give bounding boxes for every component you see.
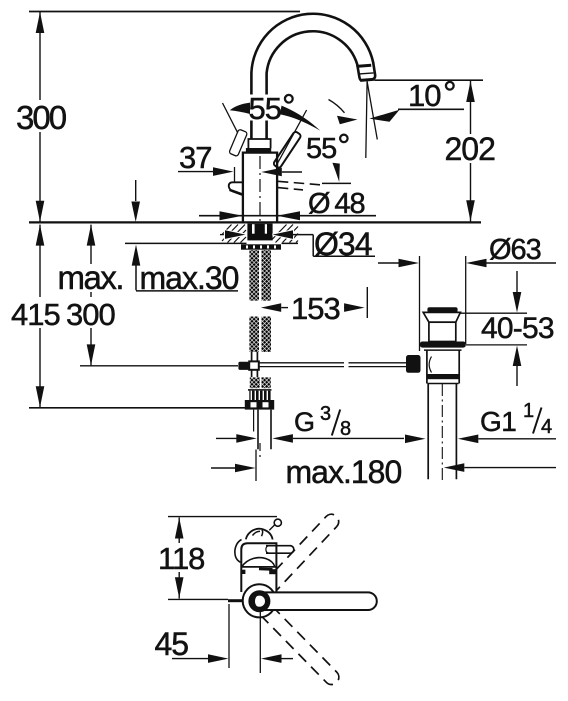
svg-text:max.: max. xyxy=(58,259,124,296)
label 300 top xyxy=(13,100,68,132)
handle lever alternate position (thin outline) xyxy=(229,129,248,157)
pop-up rod right segment xyxy=(349,363,407,367)
pop-up drain bottom rim xyxy=(427,374,458,379)
hose connection nut xyxy=(245,400,274,410)
plan: handle boss dark ring xyxy=(251,593,268,610)
svg-text:G: G xyxy=(294,407,314,437)
dimension 40-53 bottom extension line xyxy=(466,344,527,346)
plan: tiny circle pin xyxy=(274,519,281,526)
hose tee body xyxy=(249,361,259,369)
pop-up drain upper cylinder xyxy=(429,322,456,341)
aerator cut line xyxy=(356,65,371,66)
svg-text:118: 118 xyxy=(158,541,204,576)
threaded shank through counter xyxy=(247,224,272,241)
svg-text:max.180: max.180 xyxy=(286,454,402,490)
plan: spout arcs above body xyxy=(246,529,273,540)
pop-up rod left segment xyxy=(259,363,344,367)
hose tee left block xyxy=(238,362,249,370)
dimension O63 right arrow and line under label xyxy=(466,259,487,268)
flexible hose braided upper segment xyxy=(249,250,259,300)
dimension 300 bottom arrow xyxy=(36,201,45,222)
dimension 40-53 upper arrow pointing down xyxy=(516,271,518,292)
10 degree dimension arc tail xyxy=(329,100,345,113)
dimension max.300 vertical line xyxy=(90,225,92,366)
faucet neck dark band xyxy=(246,148,271,153)
dimension G3/8 left shaft and arrow xyxy=(216,437,237,439)
10 degree left arrow xyxy=(337,116,358,125)
svg-text:415: 415 xyxy=(11,297,60,332)
plan: body dome arc xyxy=(242,558,275,567)
dimension 118 vertical line xyxy=(178,518,180,599)
label O48 xyxy=(303,188,373,214)
svg-text:8: 8 xyxy=(340,418,351,440)
svg-text:202: 202 xyxy=(445,131,496,167)
pop-up drain flange bottom line xyxy=(424,349,462,351)
svg-text:300: 300 xyxy=(66,297,115,332)
svg-text:40-53: 40-53 xyxy=(481,312,554,345)
dimension 415 top arrow xyxy=(36,225,45,246)
dimension 45 left shaft and arrow xyxy=(172,658,209,660)
faucet body centerline xyxy=(259,156,261,222)
dimension 202 vertical line xyxy=(470,81,472,222)
dimension max.30 top arrow (pointing down at counter) xyxy=(135,180,137,201)
dimension 37 right arrow and shaft xyxy=(261,168,282,177)
dimension O48 right arrow xyxy=(277,211,300,220)
plan: left bulge arc xyxy=(235,540,242,563)
dimension 45 left extension line xyxy=(228,604,230,668)
plan view: 118 bottom extension line xyxy=(168,598,228,600)
max180 left extension line xyxy=(255,450,257,482)
plan: dark corner left xyxy=(241,570,246,574)
55 degree reference line left xyxy=(223,103,238,133)
reference line top (300 upper datum) xyxy=(29,11,300,13)
pop-up drain body xyxy=(427,350,459,383)
pop-up drain funnel xyxy=(423,312,460,322)
hose tee upper stub xyxy=(252,352,258,361)
dimension 45 right arrow and shaft xyxy=(261,654,282,663)
55 degree swivel arc arrow left xyxy=(230,103,250,114)
dimension 37 left extension line xyxy=(234,167,236,182)
fitting separation line xyxy=(248,389,272,391)
dimension 40-53 lower arrow pointing up xyxy=(513,346,522,367)
spout outer arc and left leg xyxy=(251,14,375,139)
bottom datum line 415 xyxy=(29,407,246,409)
plan: pin tick line xyxy=(269,524,275,530)
dimension O34 left arrow xyxy=(220,234,224,236)
svg-text:10°: 10° xyxy=(408,75,456,113)
svg-text:4: 4 xyxy=(541,416,552,438)
water stream 10 degree line xyxy=(367,81,377,139)
svg-text:1: 1 xyxy=(523,400,534,422)
spout inner arc xyxy=(267,31,362,139)
supply centerline dash below tube xyxy=(259,443,261,457)
dimension O48 line xyxy=(199,215,376,217)
dimension 40-53 top extension line xyxy=(459,312,527,314)
svg-text:45: 45 xyxy=(155,626,189,662)
O63 right extension line xyxy=(465,256,467,344)
hose short braid above fitting xyxy=(250,377,260,388)
dimension 202 extension line at spout outlet xyxy=(375,79,483,81)
svg-text:Ø63: Ø63 xyxy=(489,234,541,266)
label 55 degrees upper xyxy=(246,95,296,121)
svg-text:300: 300 xyxy=(16,99,67,136)
plan: spout inner arc tick xyxy=(253,531,261,535)
aerator mid line xyxy=(359,73,373,74)
label 118 xyxy=(156,543,206,572)
flexible hose braided middle segment xyxy=(249,317,259,353)
svg-text:37: 37 xyxy=(179,140,211,175)
hose knurled fitting band xyxy=(249,391,271,400)
dimension O34 right arrow and stepped leader xyxy=(273,230,294,239)
plan: side outlet cylinder xyxy=(266,546,290,554)
faucet neck box xyxy=(248,139,270,148)
plan view: 118 top extension line xyxy=(168,516,277,518)
55 degree swivel arc arrow right xyxy=(280,106,320,131)
pop-up drain tailpipe xyxy=(428,384,456,480)
dimension 10 degree short line xyxy=(398,108,464,110)
dimension 415 vertical line xyxy=(39,225,41,408)
hose tee lower stub xyxy=(252,370,258,377)
counter top line xyxy=(29,221,481,223)
plan: left tab xyxy=(228,599,244,602)
left protrusion thick lower edge xyxy=(230,190,244,195)
pop-up drain cap xyxy=(427,307,457,312)
dimension 202 top arrow xyxy=(466,81,475,102)
left protrusion hook xyxy=(229,182,244,195)
pop-up drain body inner curve xyxy=(429,357,431,373)
dashed leader lines to O48 xyxy=(278,181,320,185)
short line left of tube xyxy=(253,410,255,432)
label 415 xyxy=(9,297,65,328)
dimension 37 left shaft and arrow xyxy=(178,171,213,173)
counter section hatch right xyxy=(272,225,298,243)
svg-text:55°: 55° xyxy=(306,127,349,165)
dimension 153 left arrow at hose centerline xyxy=(261,303,281,312)
plan: body joint line xyxy=(241,566,276,568)
plan: dashed lever lower position xyxy=(257,601,342,688)
55 degree reference line right xyxy=(276,110,307,167)
svg-text:G1: G1 xyxy=(480,406,516,437)
O63 left extension line xyxy=(419,256,421,351)
dimension O48 left arrow xyxy=(220,211,243,220)
O48 leader line and arrow xyxy=(322,182,351,184)
dimension 153 right tick line xyxy=(366,287,368,318)
pop-up drain shoulder line xyxy=(428,383,459,385)
plan: faucet body outline xyxy=(241,543,276,592)
svg-text:Ø34: Ø34 xyxy=(314,226,372,262)
pop-up rod clevis knob xyxy=(406,355,421,373)
aerator bottom face xyxy=(360,79,375,80)
svg-text:Ø 48: Ø 48 xyxy=(308,188,365,220)
water stream vertical reference line xyxy=(366,81,367,158)
dimension max.300 top arrow xyxy=(87,225,96,246)
svg-text:max.30: max.30 xyxy=(140,260,239,296)
label max. xyxy=(57,264,126,292)
svg-text:3: 3 xyxy=(320,403,331,425)
dimension max.300 bottom arrow xyxy=(87,344,96,365)
dimension 300 vertical line xyxy=(39,12,41,222)
label 202 xyxy=(443,134,500,163)
dimension G1 1/4 right arrow and shaft xyxy=(458,435,479,444)
dimension 45 right extension line xyxy=(259,612,261,673)
10 degree right arrow xyxy=(369,110,399,122)
counter bottom line xyxy=(125,242,298,244)
handle lever raised (solid) xyxy=(273,131,302,169)
G3/8 connection tube xyxy=(258,410,271,450)
dimension 118 bottom arrow xyxy=(175,577,184,598)
dimension max.300 bottom extension line xyxy=(80,365,238,367)
plan: dashed lever upper position xyxy=(258,511,342,599)
plan: dark segment below joint xyxy=(259,568,273,571)
dimension G1 1/4 left arrow xyxy=(405,435,426,444)
dimension max.180 right arrow and shaft xyxy=(444,463,465,472)
plan: dark corner right xyxy=(269,569,276,574)
dimension 415 bottom arrow xyxy=(36,386,45,407)
svg-text:55°: 55° xyxy=(249,88,295,126)
dimension O63 left shaft and arrow xyxy=(378,262,400,264)
svg-text:153: 153 xyxy=(291,291,340,326)
dimension 300 top arrow xyxy=(36,12,45,33)
plan: handle bar pill xyxy=(254,592,377,610)
dimension max.30 bottom arrow (pointing up at counter underside) xyxy=(132,245,141,266)
counter section hatch left xyxy=(222,225,246,243)
drain centerline xyxy=(441,384,443,482)
dimension max.30 leader line xyxy=(136,265,238,291)
dimension 153 right arrow xyxy=(344,307,345,309)
plan: escutcheon outer circle xyxy=(243,584,276,617)
dimension 202 bottom arrow xyxy=(466,200,475,221)
pop-up drain flange ring xyxy=(420,342,466,348)
dimension 118 top arrow xyxy=(175,518,184,539)
label 300 of max.300 xyxy=(64,297,120,328)
faucet body sides xyxy=(243,153,277,222)
dimension max.180 left shaft arrow xyxy=(211,467,236,469)
plan: small arc tick right xyxy=(262,530,263,536)
dimension G3/8 right arrow and line under label xyxy=(272,434,293,443)
